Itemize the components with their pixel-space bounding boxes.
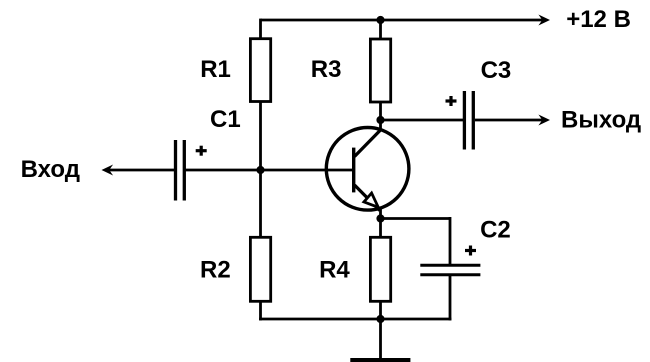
junction node bottom rail bbox=[376, 315, 384, 323]
wire C2 top lead bbox=[449, 217, 452, 264]
wire emitter to R4 top bbox=[379, 209, 382, 238]
resistor R3 bbox=[370, 39, 390, 102]
capacitor C2 bbox=[420, 265, 480, 275]
wire R2 bottom lead bbox=[259, 301, 262, 321]
polarity plus C3 bbox=[446, 96, 457, 106]
wire C1 to base bar bbox=[185, 169, 353, 172]
svg-text:C3: C3 bbox=[481, 57, 512, 84]
svg-text:R1: R1 bbox=[200, 56, 231, 83]
junction node collector bbox=[376, 116, 384, 124]
svg-text:C1: C1 bbox=[210, 106, 241, 133]
capacitor C1 bbox=[176, 140, 185, 201]
transistor VT1 base bar bbox=[352, 148, 355, 193]
wire input line from arrow to C1 bbox=[108, 169, 175, 172]
svg-text:C2: C2 bbox=[480, 217, 511, 244]
wire R3 bottom to collector node bbox=[379, 101, 382, 131]
svg-text:R2: R2 bbox=[200, 256, 231, 283]
wire R1 bottom to base node to R2 top bbox=[259, 101, 262, 239]
resistor R4 bbox=[370, 237, 390, 301]
wire ground stem bbox=[379, 319, 382, 358]
wire +12V rail bbox=[261, 19, 544, 22]
resistor R1 bbox=[250, 39, 270, 102]
svg-text:Вход: Вход bbox=[21, 156, 80, 183]
transistor VT1 emitter diagonal bbox=[355, 185, 380, 211]
arrowhead input bbox=[102, 165, 114, 176]
junction node top rail bbox=[376, 16, 384, 24]
junction node base bbox=[256, 166, 264, 174]
svg-text:R3: R3 bbox=[311, 56, 342, 83]
wire ground rail bbox=[259, 318, 451, 321]
polarity plus C2 bbox=[465, 246, 476, 256]
wire R1 top lead bbox=[259, 19, 262, 39]
ground bar bbox=[350, 358, 410, 362]
wire collector node to C3 bbox=[381, 119, 464, 122]
wire emitter node to C2 branch bbox=[381, 217, 451, 220]
transistor VT1 circle bbox=[326, 128, 409, 211]
svg-text:R4: R4 bbox=[319, 257, 350, 284]
resistor R2 bbox=[250, 237, 270, 301]
wire R4 bottom lead bbox=[379, 301, 382, 320]
junction node emitter bbox=[376, 214, 384, 222]
polarity plus C1 bbox=[196, 146, 207, 156]
svg-text:Выход: Выход bbox=[561, 106, 641, 133]
wire C2 bottom lead bbox=[449, 276, 452, 320]
wire R3 top lead bbox=[379, 20, 382, 40]
arrowhead output bbox=[538, 115, 550, 126]
arrowhead +12V bbox=[538, 15, 550, 26]
capacitor C3 bbox=[464, 91, 473, 150]
transistor VT1 emitter arrowhead bbox=[364, 193, 378, 207]
transistor VT1 collector diagonal bbox=[355, 130, 381, 157]
svg-text:+12 В: +12 В bbox=[566, 6, 631, 33]
wire C3 to output arrow bbox=[475, 119, 544, 122]
